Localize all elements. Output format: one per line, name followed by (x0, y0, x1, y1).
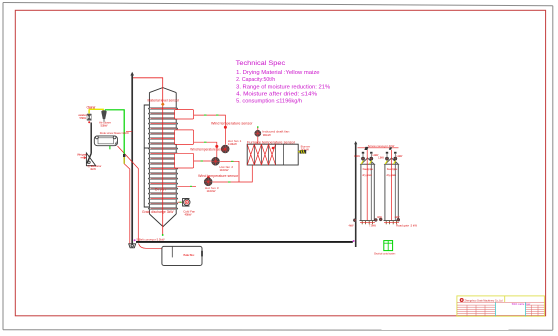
wet grain elevator boot (129, 244, 136, 248)
svg-text:90kW: 90kW (263, 133, 271, 137)
wire box2 to hot fan 2 (194, 142, 217, 158)
svg-text:5. consumption ≤1196kg/h: 5. consumption ≤1196kg/h (236, 99, 302, 105)
svg-text:4kW: 4kW (90, 167, 96, 171)
svg-text:dry grain: dry grain (362, 173, 372, 177)
burner (298, 144, 310, 153)
svg-text:Boiler Box: Boiler Box (183, 253, 195, 257)
tray stack (148, 108, 178, 210)
svg-text:110kW: 110kW (220, 168, 229, 172)
silo discharge screws (360, 222, 399, 224)
hot air duct fan2 to furnace (220, 161, 239, 182)
svg-text:2. Capacity:50t/h: 2. Capacity:50t/h (236, 77, 275, 83)
svg-text:1.1kW: 1.1kW (396, 154, 403, 158)
exhaust duct box 1 (175, 110, 194, 119)
boiler room box (139, 244, 203, 266)
svg-text:1.1kW: 1.1kW (354, 154, 361, 158)
svg-text:Grain discharge 3kW: Grain discharge 3kW (142, 210, 174, 214)
svg-text:110kW: 110kW (207, 189, 216, 193)
dryer tower shell (149, 88, 176, 227)
silo 1 (354, 150, 379, 221)
cleaner yellow piping (89, 109, 103, 113)
top screw conveyor to silos (358, 144, 399, 150)
hot air duct fan3 to furnace (213, 165, 253, 182)
belt conveyor (134, 237, 355, 242)
hot fan 1 (221, 139, 241, 153)
svg-text:5 Belt conveyor 5.5kW: 5 Belt conveyor 5.5kW (137, 237, 165, 241)
silo 2 (378, 150, 403, 221)
svg-text:Wet grain: Wet grain (77, 153, 87, 157)
induced draft fan (255, 126, 290, 144)
silo legs (362, 221, 396, 225)
wet grain inlet (77, 153, 87, 159)
electrical control cabinet (374, 241, 395, 256)
wind temperature sensor 1 (211, 121, 253, 128)
svg-text:3. Range of moisture reduction: 3. Range of moisture reduction: 21% (236, 84, 330, 90)
svg-text:110kW: 110kW (228, 142, 237, 146)
furnace U1 (247, 144, 298, 165)
cold fan (178, 198, 196, 216)
svg-text:Wind temperature sensor: Wind temperature sensor (190, 148, 227, 152)
material level sensor (148, 98, 180, 106)
svg-text:Material level sensor: Material level sensor (148, 98, 180, 102)
discharge motor 4 (395, 215, 418, 227)
svg-text:Feed pipe: Feed pipe (387, 167, 398, 171)
svg-text:45kW: 45kW (185, 213, 192, 217)
duct end valve (123, 154, 125, 157)
hot fan 3 (204, 178, 219, 193)
cleaner symbol (87, 114, 91, 123)
grain down pipe left of leg (124, 164, 130, 244)
tower left air duct bracket (144, 105, 149, 207)
wire box1 to hot fan 1 (194, 115, 226, 144)
svg-text:5.5kW: 5.5kW (101, 124, 108, 128)
svg-text:Electrical control system: Electrical control system (374, 252, 395, 256)
green air duct (105, 110, 124, 154)
wind temperature sensor 3 (198, 174, 239, 179)
svg-text:4kW: 4kW (395, 215, 401, 219)
tower centre grain line (162, 88, 164, 235)
return pipe right of leg (118, 146, 143, 242)
dry grain elevator (354, 141, 357, 247)
exhaust duct box 2 (175, 130, 194, 145)
svg-text:Wind temperature sensor: Wind temperature sensor (211, 121, 253, 125)
exhaust duct box 3 (175, 153, 194, 168)
svg-text:1. Drying Material :Yellow mai: 1. Drying Material :Yellow maize (236, 70, 320, 76)
title block (457, 296, 545, 316)
svg-text:4kW: 4kW (349, 224, 355, 228)
svg-text:Rode screw blower 10kW: Rode screw blower 10kW (100, 131, 129, 135)
rotary screw blower (94, 131, 129, 149)
svg-text:Road gate .5 kW: Road gate .5 kW (396, 224, 418, 228)
svg-text:4kW: 4kW (377, 215, 383, 219)
wet grain elevator leg (130, 72, 134, 244)
svg-text:7.5kW: 7.5kW (369, 224, 377, 228)
svg-text:Feed pipe: Feed pipe (363, 167, 374, 171)
grain feed line into tower top (133, 78, 163, 88)
hot fan 2 (212, 157, 234, 172)
blower label leader (126, 131, 132, 133)
svg-text:dry grain: dry grain (387, 173, 397, 177)
tray sensing line (177, 185, 196, 187)
svg-text:1.1kW: 1.1kW (378, 155, 385, 159)
svg-text:5.5kW: 5.5kW (80, 116, 87, 120)
wire box3 to hot fan 2 (194, 160, 211, 162)
technical spec text (236, 60, 330, 105)
wind temperature sensor 2 (190, 145, 227, 152)
air closer (99, 110, 111, 127)
svg-text:Dryer: Dryer (155, 188, 167, 192)
svg-text:Wind temperature sensor: Wind temperature sensor (198, 174, 239, 178)
svg-text:Zhengzhou Grain Machinery Co.,: Zhengzhou Grain Machinery Co.,Ltd (465, 299, 503, 303)
svg-text:4. Moisture after dried: ≤14%: 4. Moisture after dried: ≤14% (236, 91, 317, 97)
svg-text:Technical Spec: Technical Spec (236, 60, 286, 67)
svg-text:50t/h maize dryer: 50t/h maize dryer (512, 302, 531, 306)
wet grain elevator (left) (86, 123, 95, 166)
discharge motor 2 (369, 218, 377, 227)
discharge motor 1 (349, 219, 357, 228)
discharge motor 3 (377, 215, 383, 221)
